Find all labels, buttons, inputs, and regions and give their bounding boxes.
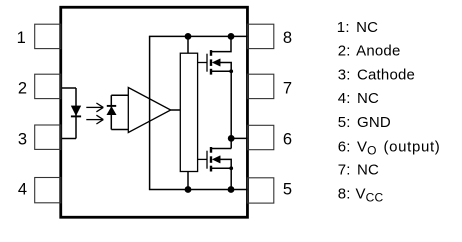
pin 1 box [35,24,61,48]
junction dot GND rail left [185,186,192,193]
svg-text:6: 6 [283,130,292,148]
pin 2 box [35,74,61,98]
junction dot VCC rail right [228,33,235,40]
LED D1 triangle [71,106,80,115]
transistor Q2 gate lead [198,158,207,160]
wire driver bottom stub [187,172,189,190]
svg-text:7: 7 [283,79,292,97]
transistor Q1 channel segments [210,50,212,75]
wire VCC top rail [149,35,248,37]
op-amp U1 triangle [128,88,170,133]
svg-text:2: 2 [18,79,27,97]
pin 6 box [247,125,273,149]
wire GND bottom rail [149,189,248,191]
photodiode PD triangle [107,107,116,115]
photodiode PD vertical lead [110,95,112,129]
svg-text:1: 1 [17,29,26,47]
wire supply left vertical [149,36,151,189]
driver block U2 [180,53,197,171]
wire photodiode bottom to amp input [111,129,128,131]
transistor Q2 channel segments [210,147,212,172]
svg-text:6: VO (output): 6: VO (output) [338,138,441,157]
wire LED vertical [75,88,77,139]
photodiode PD cathode bar [107,105,116,107]
svg-text:4: 4 [18,181,27,199]
pin 8 box [247,24,273,48]
pin 7 box [247,74,273,98]
wire cathode from LED to pin 3 [62,138,77,140]
wire amp output to driver [171,109,181,111]
junction dot Q2 source [229,166,233,170]
pin 3 box [35,125,61,149]
svg-text:3: Cathode: 3: Cathode [338,66,415,83]
wire Q1 source to VO node [230,71,232,138]
junction dot GND rail right [228,186,235,193]
pin 4 box [35,178,61,203]
wire VO node to Q2 drain [230,138,232,148]
svg-text:2: Anode: 2: Anode [338,43,401,60]
wire photodiode top to amp input [111,94,128,96]
transistor Q1 drain stub [212,36,231,51]
junction dot VO node [228,135,235,142]
transistor Q2 drain stub [212,148,231,150]
svg-text:3: 3 [18,130,27,148]
light emission arrow lower [86,115,103,124]
IC package outline [61,7,248,217]
transistor Q2 gate line [206,151,208,169]
transistor Q1 body arrow [212,59,220,66]
junction dot VCC rail left [185,33,192,40]
svg-text:5: 5 [283,181,292,199]
wire VO node to pin 6 [231,137,247,139]
pin 5 box [247,178,273,203]
svg-text:5: GND: 5: GND [338,114,391,131]
wire anode from pin 2 to LED [62,87,77,89]
junction dot Q1 source [229,69,233,73]
transistor Q1 body lead [220,63,232,72]
LED D1 cathode bar [71,115,81,117]
wire driver top stub [187,36,189,53]
transistor Q2 body lead [220,159,232,168]
transistor Q2 source stub [212,167,231,169]
wire Q2 source to GND rail [230,168,232,189]
svg-text:1: NC: 1: NC [337,19,378,36]
transistor Q2 body arrow [212,156,220,163]
svg-text:4: NC: 4: NC [338,90,379,107]
transistor Q1 source stub [212,70,231,72]
transistor Q1 gate line [206,54,208,72]
svg-text:8: 8 [283,29,292,47]
light emission arrow upper [86,103,103,112]
transistor Q1 gate lead [198,62,207,64]
svg-text:7: NC: 7: NC [338,162,379,179]
svg-text:8: VCC: 8: VCC [338,185,384,204]
